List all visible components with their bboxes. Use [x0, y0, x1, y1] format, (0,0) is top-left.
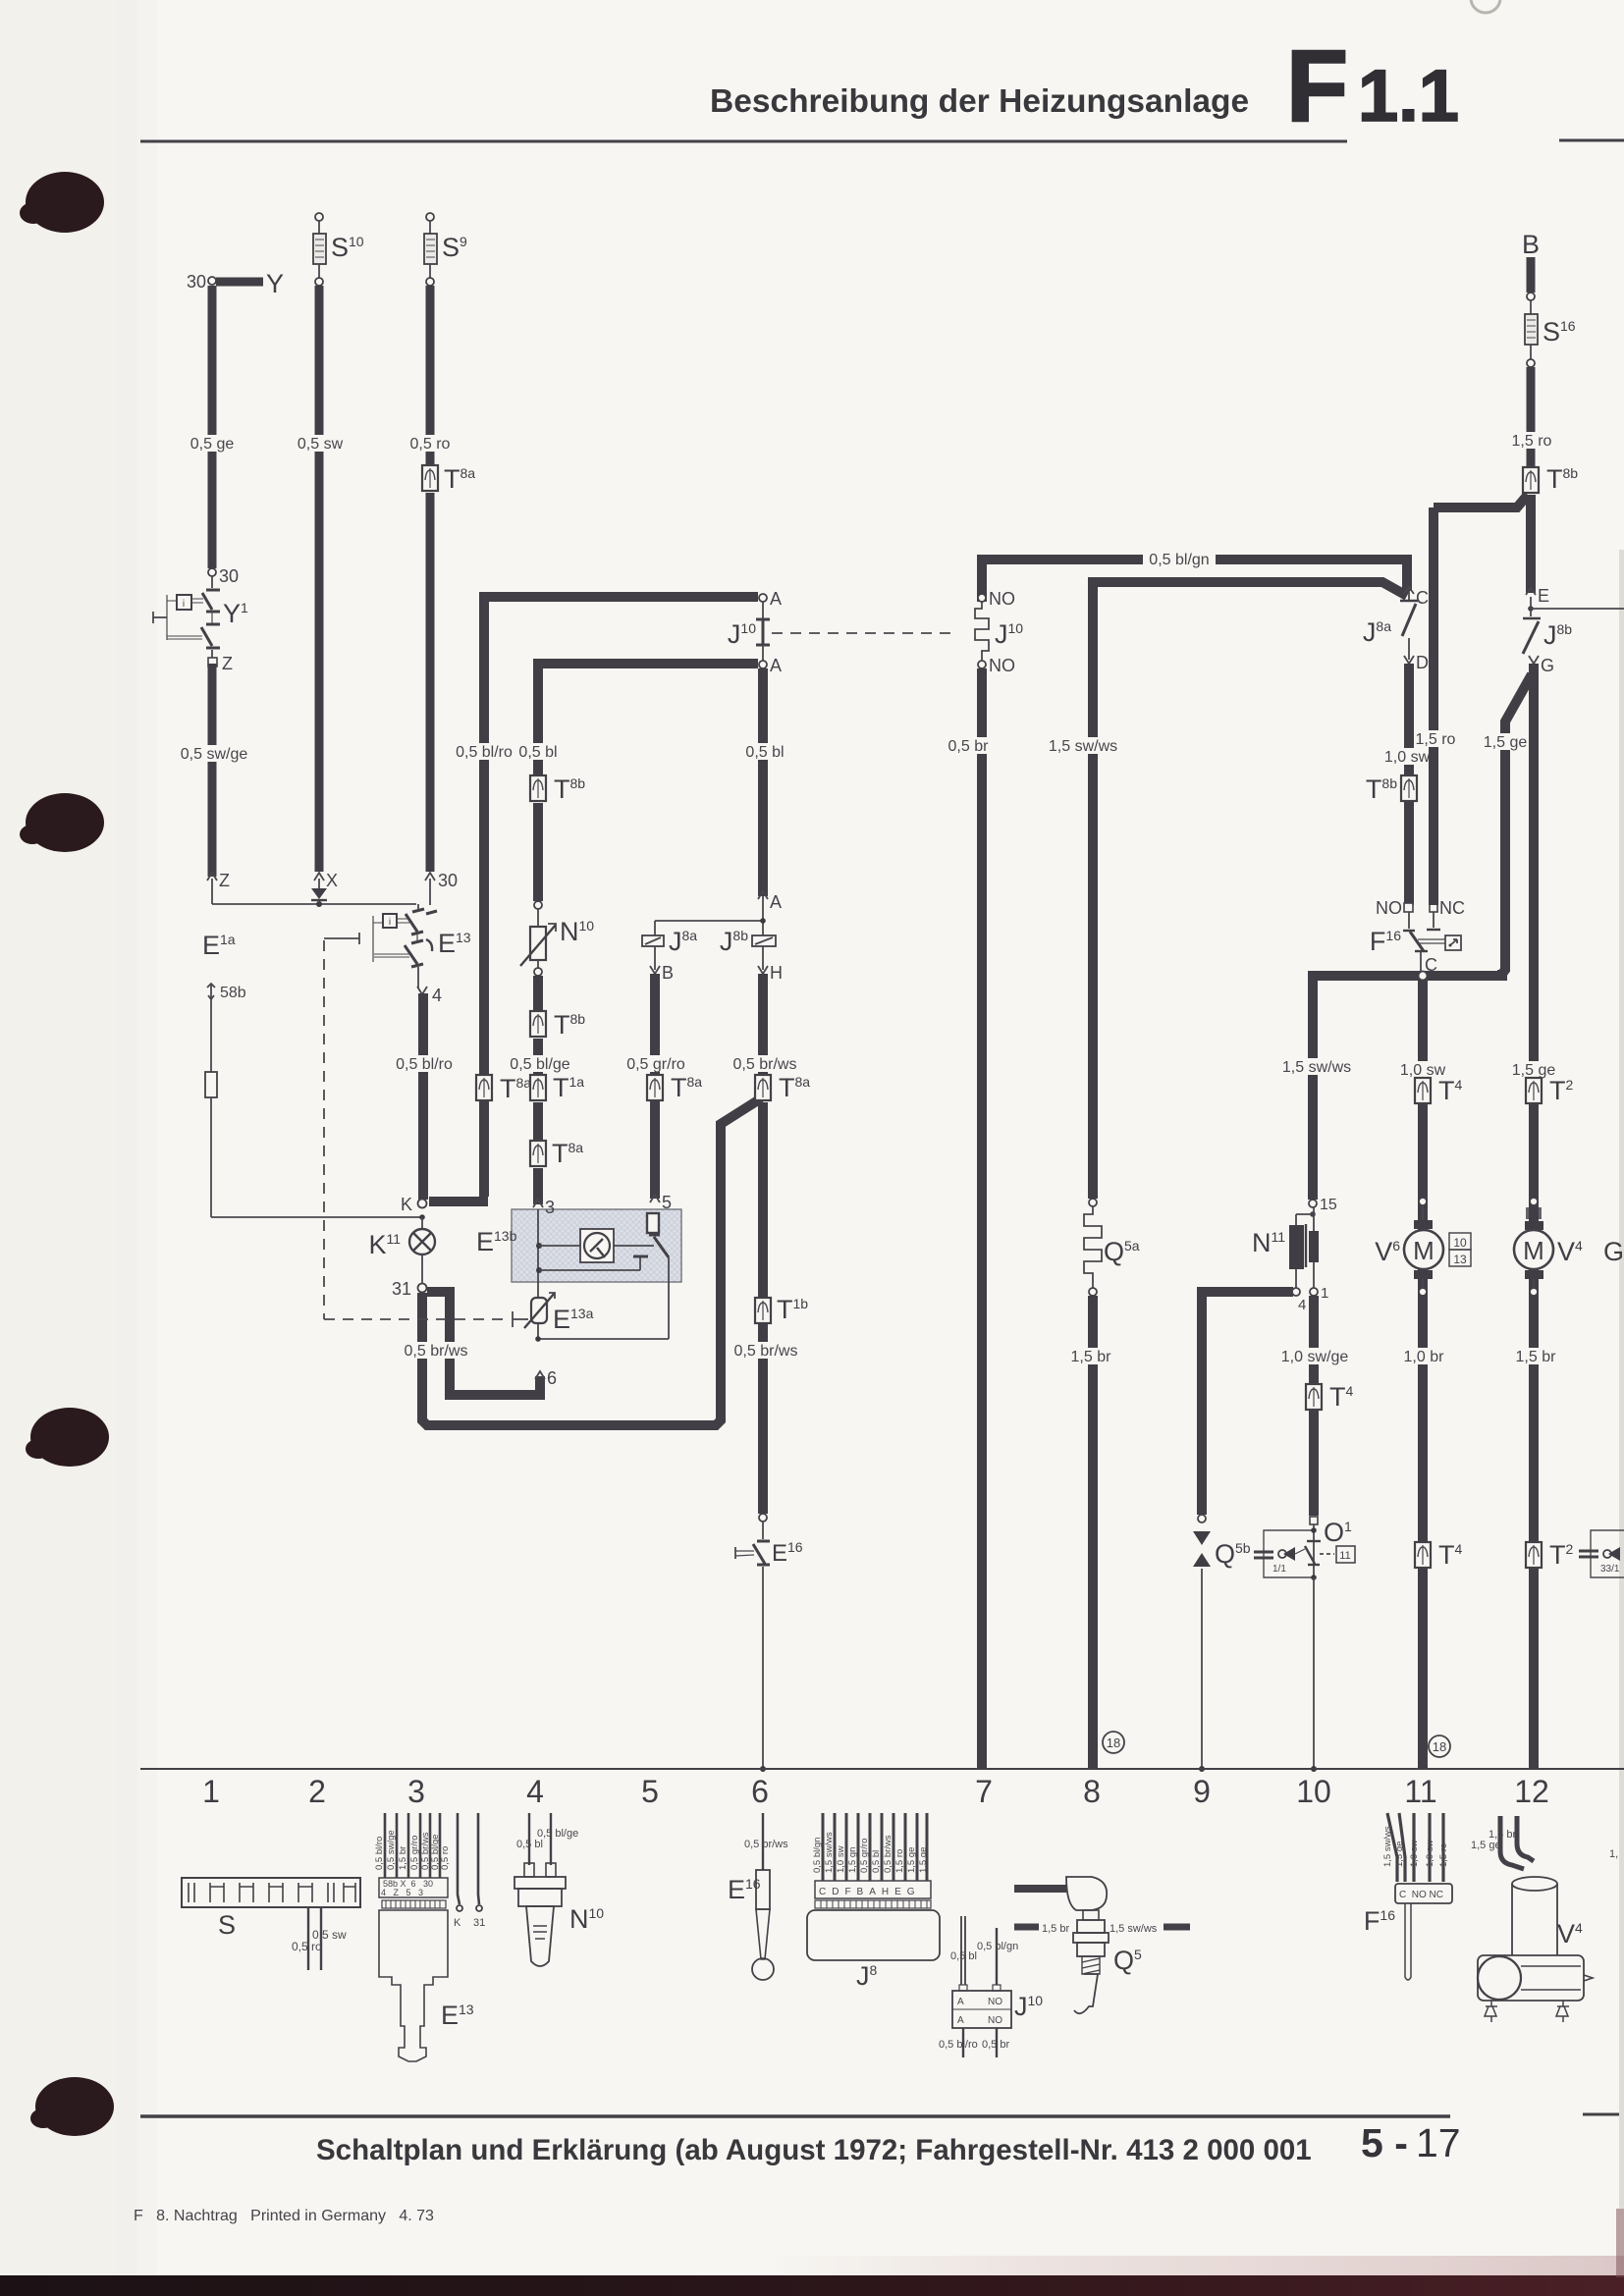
svg-text:0,5 br/ws: 0,5 br/ws: [734, 1343, 798, 1360]
svg-text:NO: NO: [988, 1997, 1002, 2007]
svg-text:9: 9: [1193, 1774, 1211, 1809]
svg-text:0,5 bl/gn: 0,5 bl/gn: [977, 1941, 1018, 1952]
svg-text:V6: V6: [1375, 1237, 1400, 1266]
svg-text:S10: S10: [331, 233, 364, 262]
svg-text:E1a: E1a: [202, 931, 236, 960]
svg-text:C NO NC: C NO NC: [1399, 1890, 1443, 1900]
svg-text:1,5 ge: 1,5 ge: [1484, 734, 1528, 751]
svg-text:6: 6: [547, 1368, 557, 1388]
svg-text:0,5 bl/ro: 0,5 bl/ro: [939, 2039, 978, 2051]
svg-text:T8b: T8b: [1366, 774, 1397, 804]
svg-text:6: 6: [751, 1774, 769, 1809]
svg-text:5 -: 5 -: [1361, 2120, 1408, 2165]
svg-text:B: B: [662, 963, 674, 983]
svg-text:30: 30: [187, 272, 206, 292]
svg-text:A: A: [770, 656, 782, 675]
svg-text:0,5 br/ws: 0,5 br/ws: [733, 1056, 797, 1073]
svg-text:J10: J10: [1014, 1992, 1043, 2021]
svg-text:30: 30: [219, 566, 239, 586]
svg-text:B: B: [1522, 230, 1540, 259]
svg-text:K11: K11: [368, 1230, 401, 1259]
svg-text:1: 1: [202, 1774, 220, 1809]
svg-text:T8a: T8a: [444, 464, 475, 494]
svg-text:T8b: T8b: [1546, 464, 1578, 494]
svg-text:3: 3: [545, 1198, 555, 1217]
svg-text:0,5 sw: 0,5 sw: [298, 436, 344, 453]
svg-text:1,0 sw: 1,0 sw: [1384, 749, 1431, 766]
svg-text:J10: J10: [728, 619, 756, 649]
svg-text:K: K: [454, 1917, 461, 1929]
svg-text:17: 17: [1416, 2120, 1461, 2165]
svg-text:1.1: 1.1: [1358, 55, 1459, 136]
svg-text:2: 2: [308, 1774, 326, 1809]
svg-text:4 Z 5 3: 4 Z 5 3: [381, 1888, 423, 1897]
svg-text:T2: T2: [1549, 1076, 1574, 1105]
svg-text:11: 11: [1339, 1550, 1350, 1562]
svg-text:1,0 br: 1,0 br: [1404, 1349, 1445, 1365]
svg-text:T4: T4: [1329, 1382, 1354, 1412]
svg-text:E13: E13: [441, 2001, 474, 2030]
svg-text:0,5 ro: 0,5 ro: [440, 1846, 451, 1870]
svg-text:31: 31: [392, 1279, 411, 1299]
svg-text:3: 3: [407, 1774, 425, 1809]
svg-text:1,5 ro: 1,5 ro: [1512, 433, 1552, 450]
svg-text:F16: F16: [1364, 1906, 1395, 1936]
svg-text:Z: Z: [219, 871, 230, 890]
svg-text:T8a: T8a: [671, 1073, 702, 1102]
svg-text:V4: V4: [1557, 1237, 1583, 1266]
svg-text:E: E: [1538, 586, 1549, 606]
svg-text:1,5 sw/ws: 1,5 sw/ws: [824, 1832, 835, 1873]
svg-text:1,5 ge: 1,5 ge: [918, 1847, 929, 1873]
svg-text:M: M: [1413, 1236, 1435, 1265]
svg-text:11: 11: [1404, 1774, 1436, 1809]
svg-text:0,5 ro: 0,5 ro: [410, 436, 451, 453]
svg-text:T8b: T8b: [554, 774, 585, 804]
svg-text:0,5 bl: 0,5 bl: [871, 1850, 882, 1873]
svg-text:Z: Z: [222, 654, 233, 673]
svg-text:0,5 gr/ro: 0,5 gr/ro: [626, 1056, 685, 1073]
svg-text:0,5 bl: 0,5 bl: [950, 1950, 977, 1962]
svg-text:A: A: [770, 892, 782, 912]
svg-text:S16: S16: [1543, 317, 1576, 347]
svg-text:7: 7: [975, 1774, 993, 1809]
svg-text:1,5 sw/ws: 1,5 sw/ws: [1049, 738, 1117, 755]
svg-text:0,5 br/ws: 0,5 br/ws: [883, 1835, 893, 1873]
svg-text:8: 8: [1083, 1774, 1101, 1809]
svg-text:T1b: T1b: [777, 1295, 808, 1324]
svg-text:0,5 bl/ge: 0,5 bl/ge: [537, 1828, 578, 1840]
svg-text:Q5: Q5: [1113, 1946, 1142, 1975]
svg-text:0,5 bl/ro: 0,5 bl/ro: [374, 1837, 385, 1870]
svg-text:T8a: T8a: [779, 1073, 810, 1102]
svg-text:T8b: T8b: [554, 1010, 585, 1040]
svg-text:58b: 58b: [220, 985, 246, 1001]
svg-text:1,5 gn: 1,5 gn: [847, 1847, 858, 1873]
svg-text:4: 4: [432, 986, 442, 1005]
svg-text:0,5 br/ws: 0,5 br/ws: [744, 1839, 788, 1850]
svg-text:0,5 sw/ge: 0,5 sw/ge: [386, 1830, 397, 1870]
svg-text:0,5 ge: 0,5 ge: [190, 436, 235, 453]
svg-text:T8a: T8a: [552, 1139, 583, 1168]
svg-text:V4: V4: [1557, 1919, 1583, 1949]
svg-text:1,5 br: 1,5 br: [398, 1846, 408, 1870]
svg-text:J8b: J8b: [1543, 620, 1572, 650]
svg-text:A: A: [770, 589, 782, 609]
svg-text:A: A: [957, 2015, 964, 2026]
svg-text:Y1: Y1: [223, 599, 248, 628]
svg-text:1,5 ge: 1,5 ge: [1471, 1840, 1501, 1851]
svg-text:10: 10: [1453, 1236, 1467, 1250]
svg-text:J8b: J8b: [720, 927, 748, 956]
svg-text:1,: 1,: [1609, 1848, 1618, 1860]
svg-text:E13a: E13a: [553, 1305, 594, 1334]
svg-text:1,5 br: 1,5 br: [1042, 1923, 1069, 1935]
svg-text:4: 4: [1298, 1297, 1306, 1313]
svg-text:18: 18: [1107, 1735, 1120, 1750]
svg-text:1,5 ro: 1,5 ro: [1438, 1843, 1449, 1867]
svg-text:0,5 bl: 0,5 bl: [518, 744, 557, 761]
svg-text:D: D: [1416, 653, 1429, 672]
svg-text:1/1: 1/1: [1272, 1564, 1286, 1575]
svg-text:C: C: [1416, 588, 1429, 608]
svg-text:0,5 bl: 0,5 bl: [516, 1839, 543, 1850]
svg-text:1,5 ge: 1,5 ge: [1394, 1842, 1405, 1867]
svg-text:F: F: [1286, 29, 1348, 142]
svg-text:J8a: J8a: [1363, 617, 1391, 647]
svg-text:15: 15: [1320, 1197, 1337, 1213]
svg-text:1,5 sw/ws: 1,5 sw/ws: [1382, 1826, 1393, 1867]
svg-text:CDFBAHEG: CDFBAHEG: [819, 1887, 921, 1897]
svg-text:E16: E16: [772, 1539, 803, 1567]
svg-text:1,5 ro: 1,5 ro: [1416, 731, 1456, 748]
svg-text:NO: NO: [989, 589, 1015, 609]
svg-text:10: 10: [1296, 1774, 1331, 1809]
svg-text:18: 18: [1433, 1739, 1446, 1754]
svg-text:G5: G5: [1603, 1237, 1624, 1266]
svg-text:NC: NC: [1439, 898, 1465, 918]
svg-text:J8a: J8a: [669, 927, 697, 956]
svg-text:4: 4: [526, 1774, 544, 1809]
svg-text:NO: NO: [989, 656, 1015, 675]
svg-text:5: 5: [662, 1193, 672, 1212]
svg-text:1,5 sw/ws: 1,5 sw/ws: [1110, 1923, 1158, 1935]
svg-text:G: G: [1541, 656, 1554, 675]
svg-text:0,5 sw/ge: 0,5 sw/ge: [181, 746, 248, 763]
svg-text:1: 1: [1321, 1285, 1328, 1302]
svg-text:E13: E13: [438, 929, 471, 958]
svg-text:0,5 bl/ro: 0,5 bl/ro: [396, 1056, 453, 1073]
svg-text:Q5a: Q5a: [1104, 1237, 1140, 1266]
svg-text:1,5 ro: 1,5 ro: [894, 1849, 905, 1873]
svg-text:31: 31: [473, 1917, 485, 1929]
svg-text:1,0 sw: 1,0 sw: [836, 1845, 846, 1873]
svg-text:1,5 sw/ws: 1,5 sw/ws: [1282, 1059, 1351, 1076]
svg-text:0,5 bl/gn: 0,5 bl/gn: [1149, 552, 1209, 568]
svg-text:0,5 gr/ro: 0,5 gr/ro: [409, 1836, 420, 1870]
svg-text:i: i: [389, 917, 391, 928]
svg-text:0,5 br: 0,5 br: [982, 2039, 1009, 2051]
svg-text:30: 30: [438, 871, 458, 890]
svg-text:K: K: [401, 1195, 412, 1214]
svg-text:T1a: T1a: [553, 1073, 584, 1102]
svg-text:33/1: 33/1: [1600, 1564, 1620, 1575]
svg-text:S: S: [218, 1910, 236, 1940]
svg-text:NO: NO: [1376, 898, 1402, 918]
svg-text:Schaltplan und Erklärung (ab A: Schaltplan und Erklärung (ab August 1972…: [316, 2134, 1312, 2166]
svg-text:0,5 br/ws: 0,5 br/ws: [405, 1343, 468, 1360]
svg-text:0,5 br: 0,5 br: [948, 738, 990, 755]
svg-text:1,0 sw: 1,0 sw: [1409, 1840, 1420, 1867]
svg-text:NO: NO: [988, 2015, 1002, 2026]
svg-text:O1: O1: [1324, 1518, 1352, 1547]
svg-text:5: 5: [641, 1774, 659, 1809]
svg-text:Q5b: Q5b: [1215, 1539, 1251, 1569]
svg-text:J10: J10: [995, 619, 1023, 649]
svg-text:X: X: [326, 871, 338, 890]
svg-text:i: i: [183, 599, 185, 610]
svg-text:12: 12: [1514, 1774, 1549, 1809]
svg-text:1,5 ge: 1,5 ge: [906, 1847, 917, 1873]
svg-text:0,5 bl/gn: 0,5 bl/gn: [812, 1838, 823, 1873]
svg-text:13: 13: [1453, 1253, 1467, 1266]
svg-text:1,0 sw: 1,0 sw: [1425, 1840, 1435, 1867]
svg-text:1,5 br: 1,5 br: [1071, 1349, 1112, 1365]
svg-text:N11: N11: [1252, 1228, 1285, 1257]
svg-text:N10: N10: [560, 917, 594, 946]
svg-text:T2: T2: [1549, 1540, 1574, 1570]
svg-text:T4: T4: [1438, 1540, 1463, 1570]
svg-text:1,5 br: 1,5 br: [1516, 1349, 1557, 1365]
svg-text:H: H: [770, 963, 783, 983]
svg-text:0,5 ro: 0,5 ro: [292, 1940, 322, 1953]
svg-text:M: M: [1523, 1236, 1544, 1265]
svg-text:T8a: T8a: [500, 1074, 531, 1103]
svg-text:T4: T4: [1438, 1076, 1463, 1105]
svg-text:0,5 bl/ro: 0,5 bl/ro: [456, 744, 513, 761]
svg-text:A: A: [957, 1997, 964, 2007]
svg-text:F16: F16: [1370, 927, 1401, 956]
svg-text:Beschreibung der Heizungsanlag: Beschreibung der Heizungsanlage: [710, 83, 1249, 120]
svg-text:0,5 bl/ge: 0,5 bl/ge: [510, 1056, 569, 1073]
svg-text:0,5 bl: 0,5 bl: [745, 744, 784, 761]
svg-text:1,0 sw/ge: 1,0 sw/ge: [1281, 1349, 1349, 1365]
svg-text:J8: J8: [856, 1961, 878, 1991]
svg-text:0,5 gr/ro: 0,5 gr/ro: [859, 1839, 870, 1873]
svg-text:S9: S9: [442, 233, 467, 262]
svg-text:Y: Y: [266, 269, 284, 298]
svg-text:F 8. Nachtrag Printed in G: F 8. Nachtrag Printed in Germany 4. 73: [134, 2208, 434, 2224]
svg-text:N10: N10: [569, 1904, 604, 1934]
